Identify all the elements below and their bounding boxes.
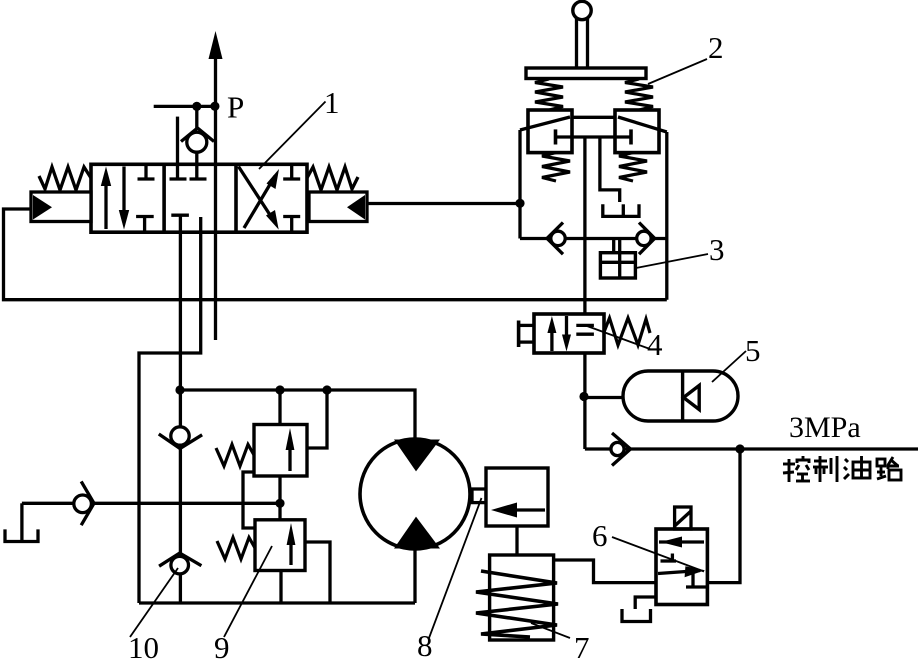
wire: lower relief right elbow <box>305 542 330 603</box>
glyph 路 <box>877 457 901 480</box>
tank symbol left <box>5 503 38 541</box>
valve 6 solenoid <box>675 507 691 529</box>
valve 1 right spring <box>307 167 358 190</box>
servo box 8 <box>486 468 548 526</box>
valve 2 right diagonal lever <box>618 117 667 132</box>
wire: lower relief top connection <box>278 503 281 520</box>
svg-text:P: P <box>227 90 244 125</box>
valve 1 box1 down arrow <box>119 167 129 230</box>
node: junction dot P <box>210 102 219 111</box>
svg-text:3MPa: 3MPa <box>789 411 861 444</box>
valve 2 right pin <box>629 129 633 144</box>
wire: port line into valve 1 top <box>176 117 179 179</box>
valve 1 left pilot box with arrow <box>31 192 91 222</box>
spring 7 coil <box>476 571 558 637</box>
valve 2 lower right spring <box>619 153 647 181</box>
component 3 box with cross <box>600 240 635 278</box>
valve 1 box1 bottom T port <box>136 217 154 233</box>
valve 1 box1 top T port <box>138 164 155 179</box>
check valve 10 lower <box>159 553 201 574</box>
leader line for 6 <box>612 537 704 572</box>
wire: servo to spring box <box>515 526 518 575</box>
check valve on control line <box>611 433 631 466</box>
valve 2 central bar top <box>572 116 615 119</box>
relief valve 9 upper spring <box>216 445 254 467</box>
wire: accumulator feed line <box>584 396 623 399</box>
wire: main line valve 4 to junction <box>583 353 586 449</box>
node: junction dot mid <box>275 385 284 394</box>
glyph 油 <box>844 456 870 479</box>
svg-text:1: 1 <box>324 85 340 120</box>
valve 1 box3 crossed arrows <box>239 167 280 230</box>
valve 1 left spring <box>39 167 91 190</box>
valve 2 left diagonal lever <box>520 117 570 130</box>
valve 2 knob circle <box>573 1 591 19</box>
node: junction dot right <box>322 385 331 394</box>
valve 2 plate <box>526 68 646 79</box>
leader line for 3 <box>636 254 708 268</box>
pump coupling <box>472 489 486 503</box>
relief valve 9 lower arrow <box>287 523 296 565</box>
leader line for 9 <box>224 546 272 637</box>
wire: valve 2 container right edge <box>665 132 668 300</box>
valve 2 upper left spring <box>535 79 563 110</box>
wire: upper relief top connection <box>278 390 281 425</box>
relief valve 9 upper arrow <box>286 428 295 471</box>
wire: P supply vertical line with arrow to top <box>209 31 223 340</box>
check valve on drain line <box>74 481 94 525</box>
leader line for 4 <box>587 326 650 349</box>
wire: manifold top line to pump <box>180 390 415 439</box>
wire: 3MPa control line <box>585 447 918 450</box>
node: control line junction dot <box>735 444 744 453</box>
wire: central main line from valve 2 down <box>583 137 586 314</box>
valve 4 left plunger <box>519 321 534 348</box>
svg-text:4: 4 <box>647 327 663 362</box>
wire: left pilot line down and long bottom line <box>4 209 667 300</box>
check valve above valve 1 <box>181 106 214 179</box>
node: junction dot on drain line <box>275 499 284 508</box>
node: junction dot on P line left <box>192 102 201 111</box>
wire: P horizontal stub <box>154 105 216 108</box>
pump/motor 8 circle <box>360 439 470 603</box>
valve 2 stem <box>577 18 588 68</box>
valve 2 left check valve <box>547 223 565 255</box>
wire: valve 6 tank step <box>635 597 656 609</box>
wire: upper relief right elbow <box>307 390 327 448</box>
relief valve 9 lower box <box>255 520 305 571</box>
valve 2 pushrod line <box>556 135 632 138</box>
accumulator 5 capsule <box>623 371 738 421</box>
valve 1 right pilot box with arrow <box>309 192 367 222</box>
svg-text:3: 3 <box>709 232 725 267</box>
wire: pilot bracket between relief valves <box>243 472 255 528</box>
valve 1 box3 top T port <box>283 164 300 179</box>
leader line for 10 <box>130 568 178 637</box>
svg-text:9: 9 <box>214 630 230 662</box>
node: pilot junction dot <box>515 199 524 208</box>
leader line for 7 <box>531 623 570 638</box>
valve 4 blocked port bars <box>576 325 594 334</box>
svg-text:6: 6 <box>592 518 608 553</box>
valve 6 upper T port <box>661 554 677 562</box>
valve 4 body <box>534 314 604 353</box>
check valve 10 upper <box>159 427 202 449</box>
valve 2 seat cup <box>603 204 639 216</box>
valve 6 lower arrow <box>658 566 705 577</box>
leader line for 1 <box>259 102 326 170</box>
valve 2 left piston box <box>528 110 572 153</box>
wire: manifold bottom edge <box>139 601 415 604</box>
wire: valve 2 container left edge <box>518 130 521 239</box>
valve 4 down arrow <box>562 316 571 352</box>
valve 6 lower T port <box>686 573 706 588</box>
valve 1 box2 top T caps <box>170 177 207 180</box>
wire: valve 1 B-port line stepping to manifold left edge <box>139 217 201 603</box>
wire: right pilot line to valve 2 <box>367 202 520 205</box>
valve 2 internal stepped pushrod <box>600 137 620 202</box>
wire: mid drain line <box>22 502 280 505</box>
glyph 控 <box>783 456 810 482</box>
wire: lower relief bottom connection <box>279 571 282 604</box>
leader line for 2 <box>648 59 707 84</box>
node: accumulator junction dot <box>579 392 588 401</box>
servo box 8 arrow <box>491 503 545 518</box>
wire: valve 2 check valve line <box>520 237 667 240</box>
leader line for 5 <box>712 351 746 382</box>
node: junction dot left <box>175 385 184 394</box>
valve 4 right spring <box>604 318 650 345</box>
valve 2 lower left spring <box>542 153 570 181</box>
wire: line down to valve 6 <box>707 449 740 583</box>
tank symbol right <box>622 609 651 622</box>
label 控制油路 (hand-drawn glyphs) <box>783 456 901 482</box>
valve 2 right piston box <box>615 110 659 153</box>
valve 1 body <box>91 164 307 232</box>
valve 2 right check valve <box>637 223 655 255</box>
valve 4 up arrow <box>547 316 556 351</box>
wire: valve 1 A-port line down to manifold <box>179 215 182 603</box>
wire: upper relief bottom connection <box>278 476 281 503</box>
valve 2 upper right spring <box>625 79 653 110</box>
relief valve 9 upper box <box>254 425 307 477</box>
valve 1 box3 bottom T port <box>283 217 300 233</box>
valve 6 top arrow <box>659 537 704 548</box>
valve 1 box2 bottom T cap <box>171 214 189 217</box>
spring box 7 <box>490 555 554 640</box>
svg-text:10: 10 <box>128 630 159 662</box>
leader line for 8 <box>429 498 482 638</box>
glyph 制 <box>813 456 837 482</box>
wire: spring box to valve 6 step <box>554 560 656 583</box>
svg-text:2: 2 <box>708 30 724 65</box>
valve 6 body <box>656 529 707 605</box>
relief valve 9 lower spring <box>217 538 255 560</box>
svg-text:7: 7 <box>574 630 590 662</box>
valve 1 box1 up arrow <box>101 167 111 230</box>
svg-text:5: 5 <box>745 333 761 368</box>
valve 2 left pin <box>554 129 558 144</box>
